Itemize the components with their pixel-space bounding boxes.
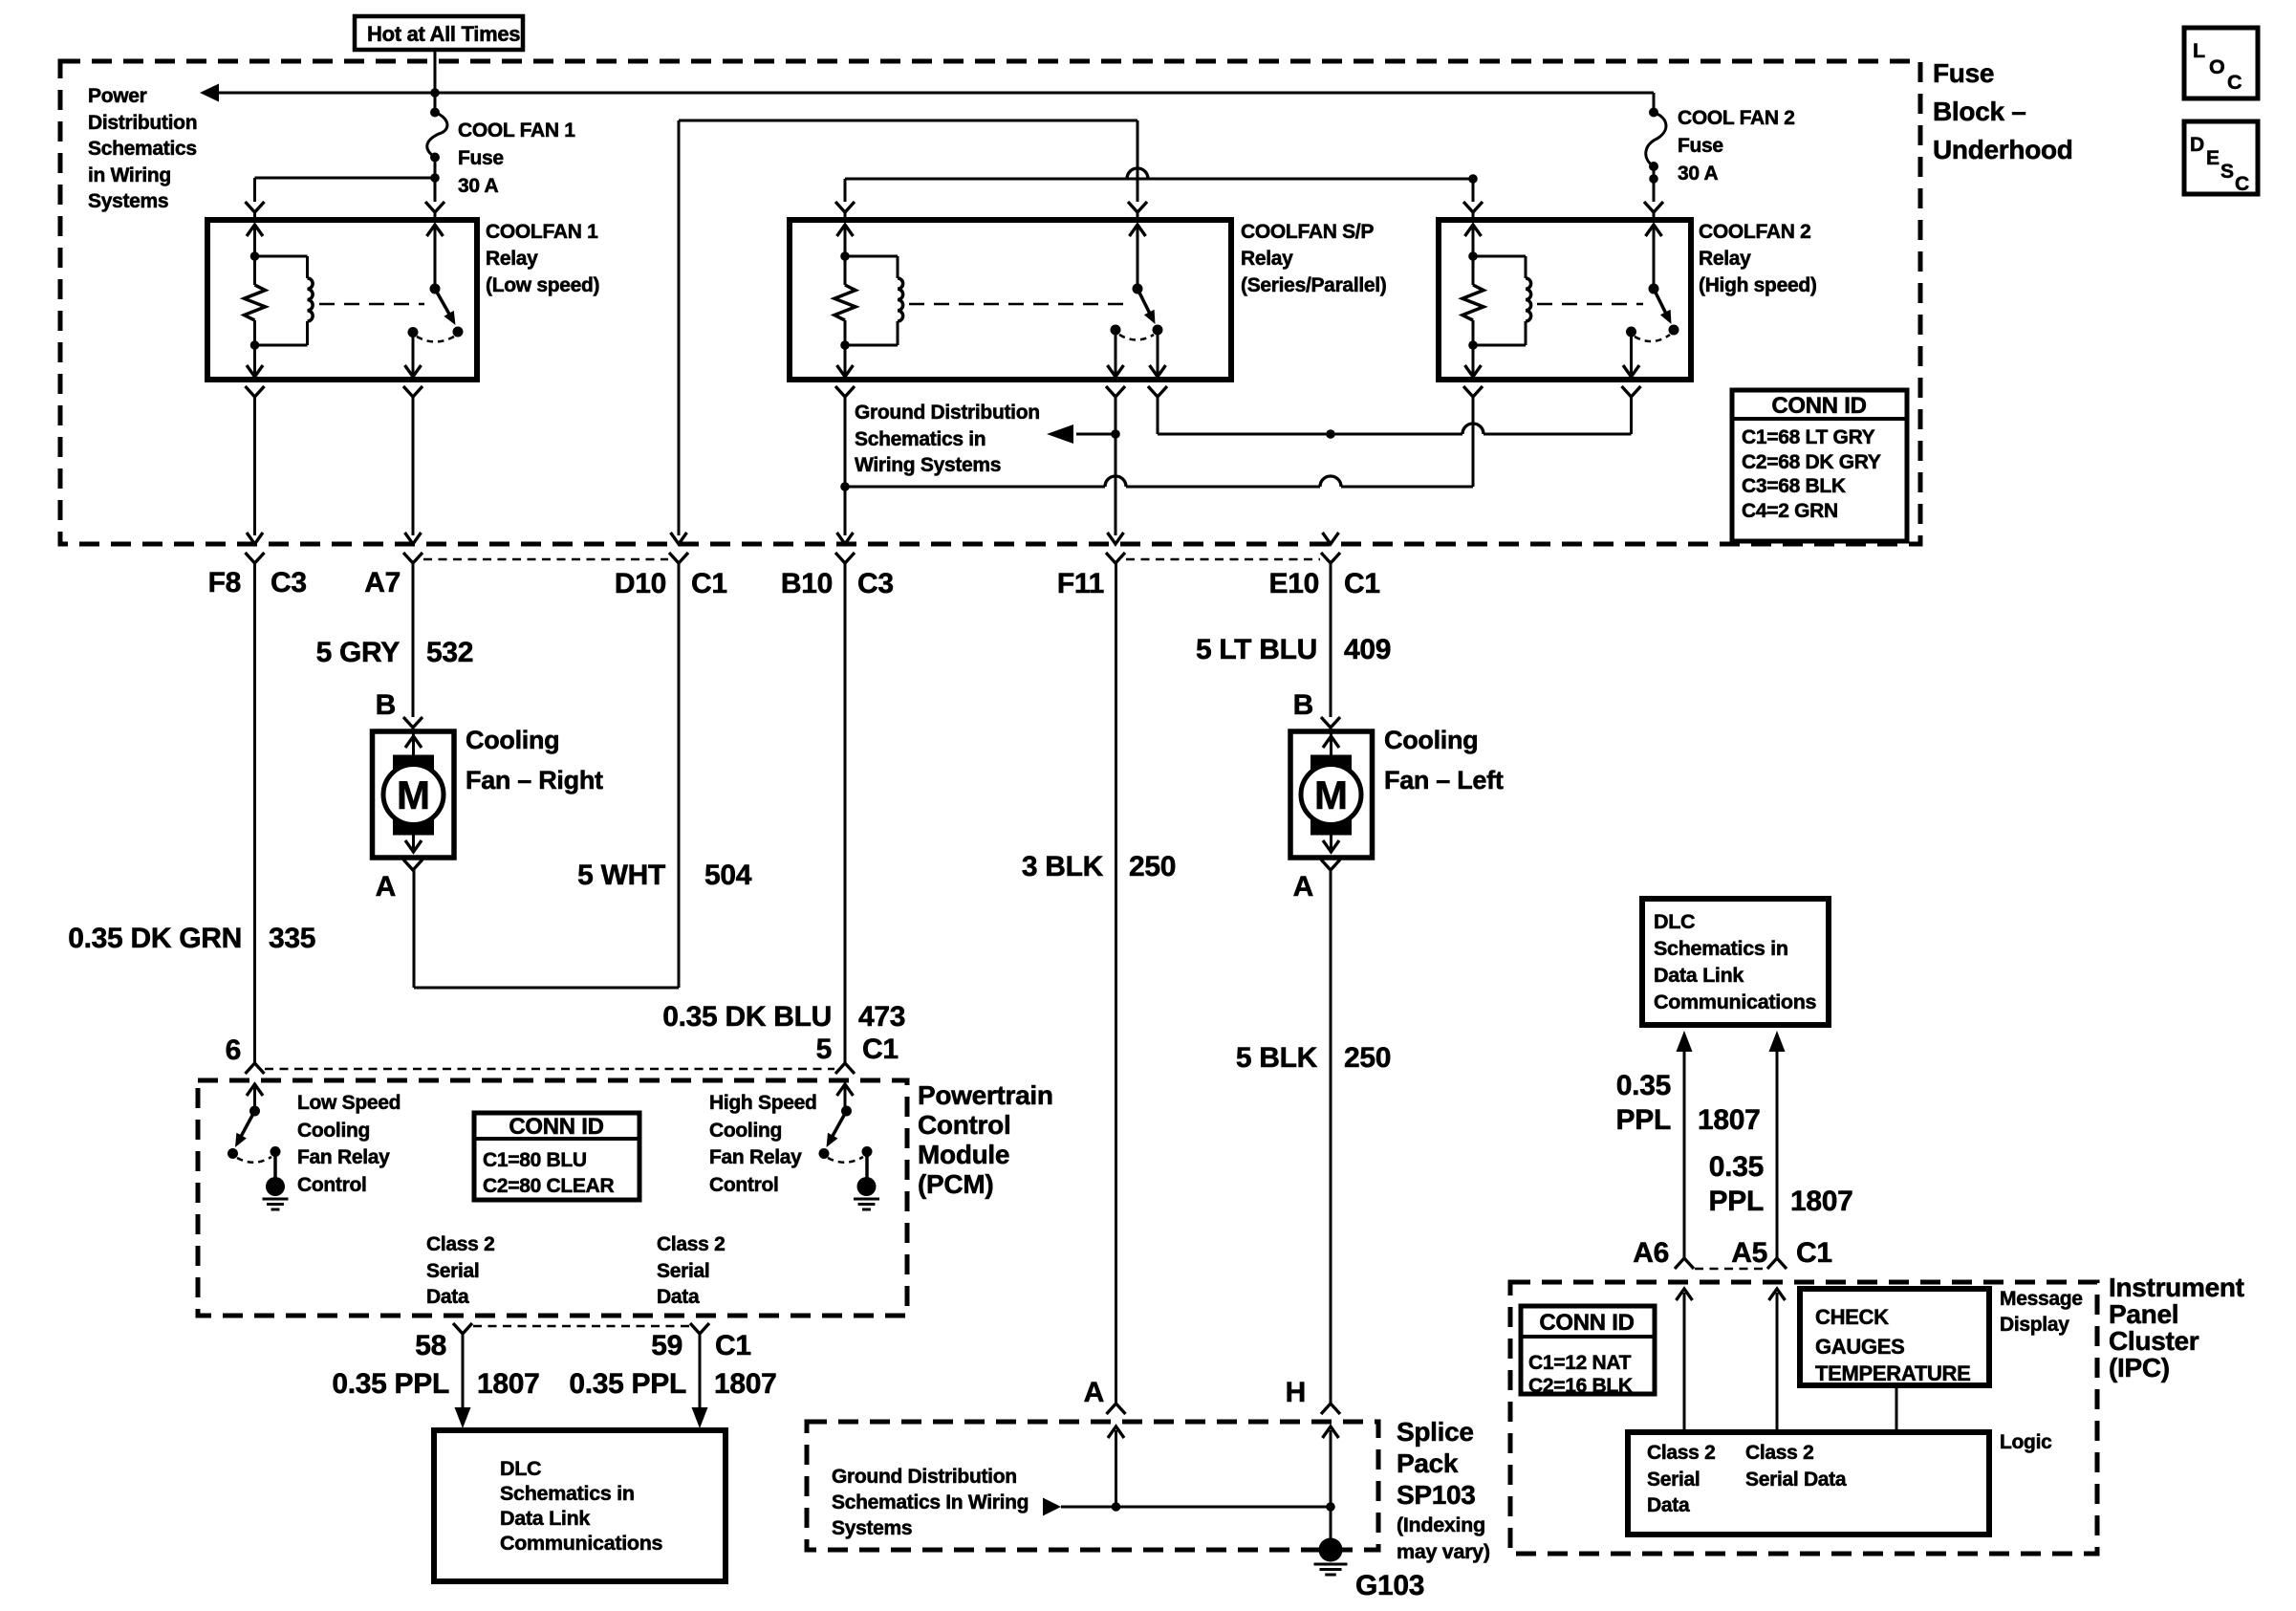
svg-text:Ground Distribution: Ground Distribution bbox=[832, 1466, 1017, 1488]
svg-text:CONN ID: CONN ID bbox=[509, 1114, 603, 1140]
svg-text:A: A bbox=[376, 871, 396, 903]
svg-text:0.35: 0.35 bbox=[1709, 1151, 1764, 1183]
svg-text:D10: D10 bbox=[615, 568, 666, 599]
relay K1 COOLFAN 1 box bbox=[207, 220, 477, 380]
relay 3 coil to switch dashed link bbox=[1537, 303, 1643, 306]
pin F8 label bbox=[208, 567, 241, 599]
pin A label left fan bbox=[1293, 871, 1313, 903]
svg-text:5 LT BLU: 5 LT BLU bbox=[1196, 634, 1317, 665]
svg-text:S: S bbox=[2220, 161, 2234, 183]
label 0.35 PPL stacked first bbox=[1616, 1070, 1671, 1136]
motor M1 Cooling Fan Right bbox=[373, 731, 455, 858]
pin A5 label bbox=[1731, 1237, 1767, 1269]
connector pin into right fan bbox=[403, 717, 422, 731]
svg-text:Communications: Communications bbox=[1654, 991, 1817, 1013]
svg-text:0.35 PPL: 0.35 PPL bbox=[569, 1368, 686, 1400]
label 250 bbox=[1129, 851, 1176, 882]
svg-text:Serial: Serial bbox=[1647, 1469, 1700, 1491]
svg-text:Fan – Left: Fan – Left bbox=[1384, 766, 1504, 795]
label Cooling Fan - Left bbox=[1384, 726, 1504, 795]
svg-text:6: 6 bbox=[226, 1034, 241, 1066]
svg-text:(Low speed): (Low speed) bbox=[486, 274, 599, 296]
fuse COOL FAN 1 30A bbox=[427, 108, 447, 163]
svg-text:Class 2: Class 2 bbox=[426, 1233, 494, 1255]
label Powertrain Control Module (PCM) bbox=[918, 1080, 1053, 1199]
svg-text:Wiring Systems: Wiring Systems bbox=[855, 454, 1001, 476]
pin H label splice bbox=[1286, 1377, 1306, 1408]
svg-text:A5: A5 bbox=[1731, 1237, 1767, 1269]
svg-text:0.35: 0.35 bbox=[1616, 1070, 1671, 1101]
svg-text:Class 2: Class 2 bbox=[657, 1233, 725, 1255]
svg-text:Data Link: Data Link bbox=[500, 1507, 590, 1530]
svg-text:Serial Data: Serial Data bbox=[1745, 1469, 1847, 1491]
svg-text:B: B bbox=[376, 689, 396, 721]
svg-text:3 BLK: 3 BLK bbox=[1022, 851, 1104, 882]
logic box IPC bbox=[1628, 1432, 1989, 1535]
svg-text:(Indexing: (Indexing bbox=[1397, 1513, 1485, 1536]
svg-text:O: O bbox=[2209, 55, 2224, 78]
connector pin A into splice pack bbox=[1107, 1404, 1126, 1414]
connector arrows at fuse block boundary bbox=[247, 533, 1339, 544]
connector pin into left fan bbox=[1321, 717, 1340, 731]
wire 3 BLK 250 ground F11 to splice pack bbox=[1115, 563, 1117, 1404]
svg-text:Splice: Splice bbox=[1397, 1417, 1474, 1447]
relay K3 COOLFAN 2 box bbox=[1439, 220, 1691, 380]
label Ground Distribution Schematics in Wiring Systems bbox=[855, 402, 1040, 476]
label COOLFAN S/P Relay (Series/Parallel) bbox=[1241, 221, 1387, 296]
svg-text:F8: F8 bbox=[208, 567, 241, 599]
fuse block underhood dashed box bbox=[60, 61, 1920, 544]
svg-text:Low Speed: Low Speed bbox=[297, 1092, 401, 1114]
svg-text:CHECK: CHECK bbox=[1815, 1305, 1889, 1329]
connector C1 label at pin 59 bbox=[715, 1330, 751, 1361]
svg-text:C1=68 LT GRY: C1=68 LT GRY bbox=[1742, 426, 1875, 448]
svg-text:COOLFAN 1: COOLFAN 1 bbox=[486, 221, 598, 243]
svg-text:250: 250 bbox=[1129, 851, 1176, 882]
svg-text:A: A bbox=[1293, 871, 1313, 903]
arrow to Power Distribution Schematics bbox=[200, 84, 219, 102]
svg-text:A7: A7 bbox=[364, 567, 401, 599]
svg-text:Relay: Relay bbox=[1699, 248, 1751, 270]
label COOLFAN 2 Relay (High speed) bbox=[1699, 221, 1817, 296]
wire A5 into logic bbox=[1769, 1289, 1786, 1432]
svg-text:0.35 DK GRN: 0.35 DK GRN bbox=[68, 923, 242, 954]
svg-text:COOL FAN 2: COOL FAN 2 bbox=[1678, 107, 1795, 129]
svg-text:532: 532 bbox=[426, 637, 473, 668]
svg-text:Relay: Relay bbox=[486, 248, 538, 270]
label COOL FAN 2 Fuse 30 A bbox=[1678, 107, 1795, 185]
CONN ID table PCM bbox=[474, 1113, 639, 1200]
label COOL FAN 1 Fuse 30 A bbox=[458, 120, 575, 197]
svg-text:Schematics in: Schematics in bbox=[855, 428, 986, 450]
label Power Distribution Schematics in Wiring Systems bbox=[88, 85, 197, 212]
svg-text:SP103: SP103 bbox=[1397, 1480, 1476, 1510]
svg-text:PPL: PPL bbox=[1709, 1186, 1764, 1217]
label 5 LT BLU bbox=[1196, 634, 1317, 665]
pin A label splice bbox=[1084, 1377, 1104, 1408]
svg-text:Fan Relay: Fan Relay bbox=[709, 1146, 802, 1168]
svg-text:C2=80 CLEAR: C2=80 CLEAR bbox=[483, 1175, 614, 1197]
svg-text:E: E bbox=[2206, 147, 2220, 169]
relay 2 switch bbox=[1111, 225, 1163, 340]
svg-text:C2=16 BLK: C2=16 BLK bbox=[1528, 1375, 1633, 1397]
wire relay coils return net to B10 bbox=[840, 476, 1473, 491]
relay 2 coil pin arrow bbox=[837, 225, 854, 256]
svg-text:Fuse: Fuse bbox=[1678, 135, 1723, 157]
svg-text:58: 58 bbox=[415, 1330, 446, 1361]
connector C1 dashed grouping line F11 to E10 bbox=[1126, 558, 1320, 561]
PCM connector C1 dashed line pins 6 to 5 bbox=[265, 1068, 834, 1071]
instrument panel cluster dashed box bbox=[1510, 1282, 2097, 1554]
low speed cooling fan relay control switch bbox=[227, 1084, 281, 1163]
pin B label left fan bbox=[1293, 689, 1313, 721]
label 5 WHT bbox=[577, 860, 665, 891]
svg-text:Panel: Panel bbox=[2109, 1299, 2178, 1329]
label 0.35 DK GRN bbox=[68, 923, 242, 954]
wire fuse 2 output to relay 2 and relay 3 coils bbox=[845, 166, 1658, 202]
label 532 bbox=[426, 637, 473, 668]
label Class 2 Serial Data PCM pin 58 bbox=[426, 1233, 494, 1308]
connector pin H into splice pack bbox=[1321, 1404, 1340, 1414]
label High Speed Cooling Fan Relay Control bbox=[709, 1092, 817, 1196]
wire cooling fan right feed to S/P relay pivot bbox=[679, 120, 1137, 535]
wire 0.35 PPL 1807 IPC A5 to DLC bbox=[1769, 1031, 1786, 1258]
svg-text:C1: C1 bbox=[862, 1034, 899, 1065]
svg-text:C: C bbox=[2235, 173, 2249, 195]
label Class 2 Serial Data PCM pin 59 bbox=[657, 1233, 725, 1308]
svg-text:5 BLK: 5 BLK bbox=[1236, 1042, 1318, 1074]
svg-text:473: 473 bbox=[858, 1001, 905, 1033]
label Splice Pack SP103 (Indexing may vary) bbox=[1397, 1417, 1490, 1563]
relay 3 output pins with arrows bbox=[1465, 332, 1640, 378]
svg-text:L: L bbox=[2193, 39, 2205, 62]
svg-text:Serial: Serial bbox=[657, 1260, 709, 1282]
splice pack SP103 dashed box bbox=[807, 1422, 1378, 1550]
svg-text:E10: E10 bbox=[1269, 568, 1319, 599]
LOC tab box bbox=[2184, 28, 2258, 98]
svg-text:Class 2: Class 2 bbox=[1745, 1442, 1813, 1464]
relay 3 switch bbox=[1626, 225, 1679, 341]
svg-text:504: 504 bbox=[704, 860, 752, 891]
svg-text:(IPC): (IPC) bbox=[2109, 1353, 2170, 1382]
DESC tab box bbox=[2184, 121, 2258, 195]
connector C3 label at B10 bbox=[857, 568, 894, 599]
resistor relay 3 bbox=[1462, 251, 1484, 350]
svg-text:C4=2 GRN: C4=2 GRN bbox=[1742, 500, 1838, 522]
svg-text:5 WHT: 5 WHT bbox=[577, 860, 665, 891]
svg-text:Cooling: Cooling bbox=[709, 1120, 782, 1142]
connector pin 5 into PCM bbox=[835, 1063, 855, 1074]
ground G103 bbox=[1314, 1507, 1348, 1575]
CONN ID table fuse block underhood bbox=[1732, 390, 1907, 541]
svg-text:High Speed: High Speed bbox=[709, 1092, 817, 1114]
pin 59 label bbox=[651, 1330, 682, 1361]
connector pins below relay 3 bbox=[1463, 386, 1641, 487]
svg-text:Fuse: Fuse bbox=[458, 147, 504, 169]
svg-text:30 A: 30 A bbox=[1678, 163, 1719, 185]
label 5 BLK bbox=[1236, 1042, 1318, 1074]
svg-text:(Series/Parallel): (Series/Parallel) bbox=[1241, 274, 1387, 296]
relay 1 coil to switch dashed link bbox=[319, 303, 424, 306]
svg-text:TEMPERATURE: TEMPERATURE bbox=[1815, 1361, 1971, 1385]
label 1807 second bbox=[714, 1368, 777, 1400]
node Hot at All Times battery feed box bbox=[355, 16, 523, 50]
svg-text:Systems: Systems bbox=[88, 190, 168, 212]
svg-text:C1: C1 bbox=[1344, 568, 1380, 599]
svg-text:Data: Data bbox=[426, 1286, 469, 1308]
relay 1 coil pin arrow bbox=[247, 225, 263, 256]
svg-text:Data: Data bbox=[657, 1286, 700, 1308]
coil relay 2 bbox=[845, 256, 903, 345]
svg-text:may vary): may vary) bbox=[1397, 1540, 1490, 1563]
resistor relay 1 bbox=[245, 251, 266, 350]
svg-text:A6: A6 bbox=[1633, 1237, 1669, 1269]
svg-text:Relay: Relay bbox=[1241, 248, 1293, 270]
label G103 bbox=[1355, 1570, 1424, 1601]
svg-text:Schematics In Wiring: Schematics In Wiring bbox=[832, 1491, 1029, 1513]
svg-text:Distribution: Distribution bbox=[88, 112, 197, 134]
pin E10 label bbox=[1269, 568, 1319, 599]
svg-text:1807: 1807 bbox=[477, 1368, 540, 1400]
pin B10 label bbox=[781, 568, 833, 599]
pin A6 label bbox=[1633, 1237, 1669, 1269]
coil relay 3 bbox=[1473, 256, 1531, 345]
svg-text:Module: Module bbox=[918, 1140, 1009, 1169]
svg-text:DLC: DLC bbox=[500, 1457, 541, 1480]
PCM connector C1 dashed line pins 58 to 59 bbox=[473, 1325, 689, 1328]
label 0.35 PPL second bbox=[569, 1368, 686, 1400]
label Logic bbox=[2000, 1431, 2052, 1453]
connector pin out of left fan bbox=[1321, 860, 1340, 870]
svg-text:M: M bbox=[1314, 773, 1348, 817]
pin 5 label bbox=[816, 1034, 832, 1065]
arrow wire to ground distribution from F11 net bbox=[1047, 425, 1120, 444]
svg-text:Powertrain: Powertrain bbox=[918, 1080, 1053, 1110]
motor M2 Cooling Fan Left bbox=[1290, 731, 1373, 858]
svg-text:0.35 DK BLU: 0.35 DK BLU bbox=[662, 1001, 832, 1033]
label 1807 first bbox=[477, 1368, 540, 1400]
connector C1 label at A5 bbox=[1796, 1237, 1832, 1269]
svg-text:C: C bbox=[2227, 71, 2242, 94]
svg-text:Logic: Logic bbox=[2000, 1431, 2052, 1453]
wire 0.35 PPL 1807 from pin 59 to DLC bbox=[692, 1334, 708, 1428]
wire 0.35 DK BLU 473 high speed control bbox=[844, 563, 847, 1063]
label 0.35 PPL first bbox=[332, 1368, 449, 1400]
svg-text:Fan Relay: Fan Relay bbox=[297, 1146, 390, 1168]
fuse COOL FAN 2 30A bbox=[1646, 108, 1666, 172]
connector C3 label at F8 bbox=[271, 567, 307, 599]
svg-text:Communications: Communications bbox=[500, 1532, 663, 1555]
pin F11 label bbox=[1057, 568, 1104, 599]
svg-text:M: M bbox=[397, 773, 430, 817]
svg-text:Schematics in: Schematics in bbox=[1654, 937, 1788, 960]
svg-text:A: A bbox=[1084, 1377, 1104, 1408]
svg-text:Control: Control bbox=[918, 1110, 1010, 1140]
connector C1 label at pin 5 bbox=[862, 1034, 899, 1065]
connector Y symbols below fuse block bbox=[246, 553, 1341, 563]
svg-text:B10: B10 bbox=[781, 568, 833, 599]
label Class 2 Serial Data IPC A5 bbox=[1745, 1442, 1847, 1491]
label Ground Distribution Schematics In Wiring Systems (splice) bbox=[832, 1466, 1029, 1539]
connector pin 59 bbox=[690, 1323, 709, 1334]
label 409 bbox=[1344, 634, 1391, 665]
svg-text:Data Link: Data Link bbox=[1654, 964, 1744, 987]
label 1807 at A6 wire bbox=[1698, 1104, 1761, 1136]
IPC connector C1 dashed line A6 to A5 bbox=[1695, 1268, 1766, 1271]
DLC Schematics in Data Link Communications box left bbox=[434, 1430, 726, 1581]
svg-text:DLC: DLC bbox=[1654, 910, 1695, 933]
wire from Hot at All Times down to fuse 1 bbox=[434, 50, 437, 113]
connector pins into relay 3 bbox=[1463, 202, 1663, 220]
svg-text:C3=68 BLK: C3=68 BLK bbox=[1742, 475, 1846, 497]
svg-text:409: 409 bbox=[1344, 634, 1391, 665]
pin A7 label bbox=[364, 567, 401, 599]
connector pin out of right fan bbox=[403, 860, 422, 870]
svg-text:Cooling: Cooling bbox=[1384, 726, 1478, 754]
svg-text:GAUGES: GAUGES bbox=[1815, 1335, 1905, 1359]
relay 2 coil to switch dashed link bbox=[909, 303, 1127, 306]
pin 6 label bbox=[226, 1034, 241, 1066]
svg-text:30 A: 30 A bbox=[458, 175, 499, 197]
relay 3 coil pin arrow bbox=[1465, 225, 1482, 256]
svg-text:Cooling: Cooling bbox=[466, 726, 559, 754]
wire 0.35 DK GRN 335 low speed control bbox=[253, 563, 256, 1063]
svg-text:335: 335 bbox=[269, 923, 315, 954]
svg-text:Fuse: Fuse bbox=[1933, 58, 1994, 88]
high speed cooling fan relay control switch bbox=[819, 1084, 873, 1163]
label 1807 at A5 wire bbox=[1790, 1186, 1853, 1217]
label 335 bbox=[269, 923, 315, 954]
label 473 bbox=[858, 1001, 905, 1033]
svg-text:CONN ID: CONN ID bbox=[1771, 393, 1866, 419]
connector pins into relay 2 bbox=[835, 202, 1147, 220]
svg-text:D: D bbox=[2190, 134, 2204, 156]
wire 5 GRY 532 F8->... A7 circuit to right fan B bbox=[412, 563, 415, 717]
svg-text:Message: Message bbox=[2000, 1288, 2083, 1310]
wire 0.35 PPL 1807 IPC A6 to DLC bbox=[1677, 1031, 1693, 1258]
wire power distribution feed line with junction at fuse 1 bbox=[217, 88, 1654, 112]
label Instrument Panel Cluster (IPC) bbox=[2109, 1273, 2244, 1382]
label 504 bbox=[704, 860, 752, 891]
svg-text:Instrument: Instrument bbox=[2109, 1273, 2244, 1302]
connector pins below relay 2 bbox=[835, 386, 1167, 535]
svg-text:Hot at All Times: Hot at All Times bbox=[367, 22, 520, 46]
relay 2 output pins with arrows bbox=[837, 330, 1166, 378]
connector C1 label at E10 bbox=[1344, 568, 1380, 599]
svg-text:COOLFAN 2: COOLFAN 2 bbox=[1699, 221, 1810, 243]
svg-text:C1=80 BLU: C1=80 BLU bbox=[483, 1149, 587, 1171]
svg-text:CONN ID: CONN ID bbox=[1539, 1310, 1634, 1336]
connector pin A5 bbox=[1767, 1258, 1787, 1269]
svg-text:1807: 1807 bbox=[1698, 1104, 1761, 1136]
svg-text:COOL FAN 1: COOL FAN 1 bbox=[458, 120, 575, 142]
label COOLFAN 1 Relay (Low speed) bbox=[486, 221, 599, 296]
label 0.35 DK BLU bbox=[662, 1001, 832, 1033]
svg-text:Class 2: Class 2 bbox=[1647, 1442, 1715, 1464]
connector C1 dashed grouping line A7 to D10 bbox=[423, 558, 668, 561]
svg-text:Underhood: Underhood bbox=[1933, 135, 2073, 164]
svg-text:C1: C1 bbox=[1796, 1237, 1832, 1269]
svg-text:Control: Control bbox=[297, 1174, 367, 1196]
wire A6 into logic bbox=[1677, 1289, 1693, 1432]
svg-text:C1: C1 bbox=[715, 1330, 751, 1361]
svg-text:Data: Data bbox=[1647, 1494, 1690, 1516]
label Fuse Block - Underhood bbox=[1933, 58, 2073, 164]
label 5 GRY bbox=[316, 637, 401, 668]
svg-text:250: 250 bbox=[1344, 1042, 1391, 1074]
svg-text:Systems: Systems bbox=[832, 1517, 912, 1539]
svg-text:1807: 1807 bbox=[1790, 1186, 1853, 1217]
wire 5 BLK 250 left fan A to splice pack H bbox=[1330, 870, 1332, 1404]
svg-text:0.35 PPL: 0.35 PPL bbox=[332, 1368, 449, 1400]
svg-text:Cluster: Cluster bbox=[2109, 1326, 2199, 1356]
svg-text:COOLFAN S/P: COOLFAN S/P bbox=[1241, 221, 1374, 243]
CHECK GAUGES TEMPERATURE message display box bbox=[1800, 1289, 1989, 1385]
label Class 2 Serial Data IPC A6 bbox=[1647, 1442, 1715, 1516]
svg-text:C3: C3 bbox=[857, 568, 894, 599]
connector pin 58 bbox=[453, 1323, 472, 1334]
svg-text:59: 59 bbox=[651, 1330, 682, 1361]
CONN ID table IPC bbox=[1521, 1306, 1655, 1397]
svg-text:(High speed): (High speed) bbox=[1699, 274, 1817, 296]
pin B label right fan bbox=[376, 689, 396, 721]
svg-text:Cooling: Cooling bbox=[297, 1120, 370, 1142]
ground inside PCM low speed bbox=[263, 1152, 289, 1210]
label 0.35 PPL stacked second bbox=[1709, 1151, 1764, 1217]
svg-text:Display: Display bbox=[2000, 1314, 2069, 1336]
label 250 second bbox=[1344, 1042, 1391, 1074]
wire D10 to right fan A terminal 5 WHT 504 bbox=[414, 563, 679, 988]
relay K2 COOLFAN S/P box bbox=[790, 220, 1231, 380]
connector pin 6 into PCM bbox=[246, 1063, 265, 1074]
svg-text:Schematics in: Schematics in bbox=[500, 1482, 635, 1505]
ground inside PCM high speed bbox=[854, 1152, 879, 1210]
svg-text:PPL: PPL bbox=[1616, 1104, 1671, 1136]
svg-text:H: H bbox=[1286, 1377, 1306, 1408]
svg-text:Power: Power bbox=[88, 85, 147, 107]
label Message Display bbox=[2000, 1288, 2083, 1336]
label Cooling Fan - Right bbox=[466, 726, 603, 795]
splice bus wire with ground distribution arrow bbox=[1043, 1426, 1339, 1516]
wire relay 2 arm output to relay 3 output (fan feed net) bbox=[1158, 424, 1632, 439]
wire 0.35 PPL 1807 from pin 58 to DLC bbox=[455, 1334, 471, 1428]
connector pins into relay 1 bbox=[246, 202, 445, 220]
svg-text:Schematics: Schematics bbox=[88, 138, 197, 160]
svg-text:C1: C1 bbox=[691, 568, 727, 599]
DLC Schematics in Data Link Communications box right bbox=[1642, 899, 1829, 1025]
connector pins below relay 1 bbox=[246, 386, 423, 535]
svg-text:Ground Distribution: Ground Distribution bbox=[855, 402, 1040, 424]
wire 5 LT BLU 409 to left fan B bbox=[1330, 563, 1332, 717]
pin 58 label bbox=[415, 1330, 446, 1361]
wire message display to logic bbox=[1895, 1385, 1898, 1432]
svg-text:F11: F11 bbox=[1057, 568, 1104, 599]
relay 1 switch bbox=[408, 225, 464, 342]
label Low Speed Cooling Fan Relay Control bbox=[297, 1092, 401, 1196]
svg-text:Serial: Serial bbox=[426, 1260, 479, 1282]
svg-text:5: 5 bbox=[816, 1034, 832, 1065]
resistor relay 2 bbox=[834, 251, 856, 350]
svg-text:in Wiring: in Wiring bbox=[88, 164, 171, 186]
PCM dashed box bbox=[198, 1080, 907, 1316]
label 3 BLK bbox=[1022, 851, 1104, 882]
svg-text:Block –: Block – bbox=[1933, 97, 2026, 126]
relay 1 output pins with arrows bbox=[247, 333, 422, 379]
svg-text:Fan – Right: Fan – Right bbox=[466, 766, 603, 795]
pin D10 label bbox=[615, 568, 666, 599]
svg-text:Pack: Pack bbox=[1397, 1448, 1459, 1478]
svg-text:B: B bbox=[1293, 689, 1313, 721]
